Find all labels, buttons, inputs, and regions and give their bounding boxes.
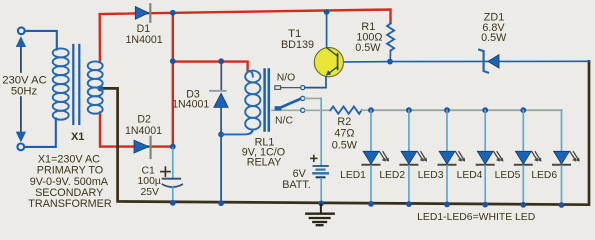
relay N/O fixed contact bbox=[275, 86, 281, 90]
ground symbol bbox=[320, 205, 322, 213]
svg-text:0.5W: 0.5W bbox=[355, 42, 381, 54]
wire: bottom terminal to primary bbox=[25, 119, 56, 147]
diode D1 bbox=[135, 7, 148, 20]
wire: T1 collector drop bbox=[326, 13, 328, 48]
transistor T1 BD139 bbox=[314, 48, 343, 77]
svg-text:PRIMARY TO: PRIMARY TO bbox=[37, 165, 103, 177]
node: rail junction at transistor collector bbox=[324, 9, 330, 15]
contact circle N/C bbox=[301, 108, 305, 112]
wire: rectified DC vertical at x=172.6 (red) bbox=[172, 13, 174, 147]
node: relay bottom on ground bus bbox=[218, 200, 224, 206]
wire: relay coil bottom lead bbox=[221, 130, 253, 135]
zener diode ZD1 bbox=[488, 55, 499, 69]
svg-text:LED3: LED3 bbox=[418, 170, 444, 181]
svg-text:RELAY: RELAY bbox=[247, 156, 282, 168]
node: C1 bottom on ground bus bbox=[170, 200, 176, 206]
LED4 bbox=[477, 110, 504, 207]
svg-text:LED4: LED4 bbox=[457, 170, 483, 181]
wire: D2 anode lead from secondary bottom (red) bbox=[100, 113, 173, 147]
svg-text:LED1-LED6=WHITE LED: LED1-LED6=WHITE LED bbox=[417, 212, 535, 223]
wire: T1 base to R1/ZD1 junction bbox=[344, 61, 390, 63]
LED6 bbox=[553, 110, 580, 208]
wire: relay coil branch (red) bbox=[173, 62, 248, 71]
svg-text:50Hz: 50Hz bbox=[11, 86, 38, 98]
svg-text:25V: 25V bbox=[140, 187, 159, 198]
battery 6V bbox=[320, 164, 322, 167]
resistor R2 bbox=[305, 109, 331, 111]
wire: top terminal to primary bbox=[25, 31, 57, 50]
svg-text:BATT.: BATT. bbox=[282, 179, 311, 191]
node: R1 / base / ZD1 junction bbox=[387, 59, 393, 65]
wire: zener run to right edge bbox=[390, 60, 589, 62]
svg-text:1N4001: 1N4001 bbox=[172, 98, 209, 110]
wire: ground return dark wire (centre tap, bottom bus, right edge) bbox=[100, 61, 590, 204]
svg-text:C1: C1 bbox=[142, 166, 156, 177]
relay RL1 coil bbox=[248, 71, 253, 77]
svg-text:47Ω: 47Ω bbox=[334, 128, 354, 140]
node: rail junction at x=172.8 bbox=[170, 10, 176, 16]
svg-text:1N4001: 1N4001 bbox=[126, 34, 163, 46]
node: rectified DC / relay branch junction bbox=[170, 58, 176, 64]
node: battery bottom on ground bus bbox=[318, 201, 324, 207]
node: transformer centre tap dot bbox=[97, 85, 103, 91]
svg-text:LED2: LED2 bbox=[379, 170, 405, 181]
capacitor C1 bbox=[172, 148, 174, 178]
arrow: AC down arrow bbox=[20, 97, 22, 134]
svg-text:1N4001: 1N4001 bbox=[125, 125, 162, 137]
transformer X1 primary winding bbox=[53, 48, 69, 119]
contact circle N/O bbox=[301, 86, 305, 90]
svg-text:100µ: 100µ bbox=[138, 176, 161, 187]
relay N/C line bbox=[272, 109, 301, 111]
LED1 bbox=[363, 110, 390, 207]
diode D2 bbox=[134, 140, 149, 153]
svg-text:N/C: N/C bbox=[275, 115, 293, 126]
svg-text:LED5: LED5 bbox=[495, 170, 521, 181]
node: D2 cathode / C1 junction bbox=[170, 144, 176, 150]
arrow: AC up arrow bbox=[20, 44, 22, 72]
LED5 bbox=[515, 110, 542, 208]
relay RL1 core bbox=[263, 70, 266, 131]
node: R2 / LED rail junction bbox=[368, 107, 374, 113]
svg-text:LED1: LED1 bbox=[340, 170, 366, 181]
LED3 bbox=[439, 110, 466, 207]
svg-text:R2: R2 bbox=[337, 116, 351, 128]
contact circle common bbox=[301, 96, 305, 100]
node: relay branch / D3 junction bbox=[218, 58, 224, 64]
label: + 6V BATT. bbox=[311, 157, 317, 159]
svg-text:0.5W: 0.5W bbox=[332, 140, 358, 152]
transformer X1 core bbox=[72, 45, 74, 124]
node: D3 / relay coil bottom junction bbox=[218, 132, 224, 138]
svg-text:TRANSFORMER: TRANSFORMER bbox=[28, 198, 112, 210]
wire: top positive rail (red) from transformer to R1 bbox=[100, 10, 391, 63]
wire: relay coil bottom to ground bus bbox=[220, 134, 222, 203]
LED2 bbox=[400, 110, 427, 207]
transformer X1 secondary winding bbox=[88, 61, 103, 113]
wire: LED anode rail bbox=[371, 109, 562, 111]
svg-text:D2: D2 bbox=[137, 113, 151, 125]
diode D3 (freewheel across relay coil) bbox=[220, 62, 222, 90]
terminal: AC input top circle bbox=[18, 27, 25, 34]
relay armature plate bbox=[275, 106, 282, 110]
terminal: AC input bottom circle bbox=[17, 144, 24, 151]
svg-text:X1: X1 bbox=[71, 131, 84, 143]
svg-text:N/O: N/O bbox=[277, 73, 295, 84]
svg-text:0.5W: 0.5W bbox=[481, 32, 507, 44]
svg-text:BD139: BD139 bbox=[281, 39, 314, 51]
wire: common to battery bbox=[305, 97, 321, 99]
node: LED rail dots bbox=[406, 107, 412, 113]
resistor R1 bbox=[387, 24, 394, 51]
svg-text:LED6: LED6 bbox=[531, 170, 557, 181]
relay armature blade bbox=[278, 99, 301, 109]
wire: T1 emitter to N/O contact bbox=[305, 77, 326, 88]
